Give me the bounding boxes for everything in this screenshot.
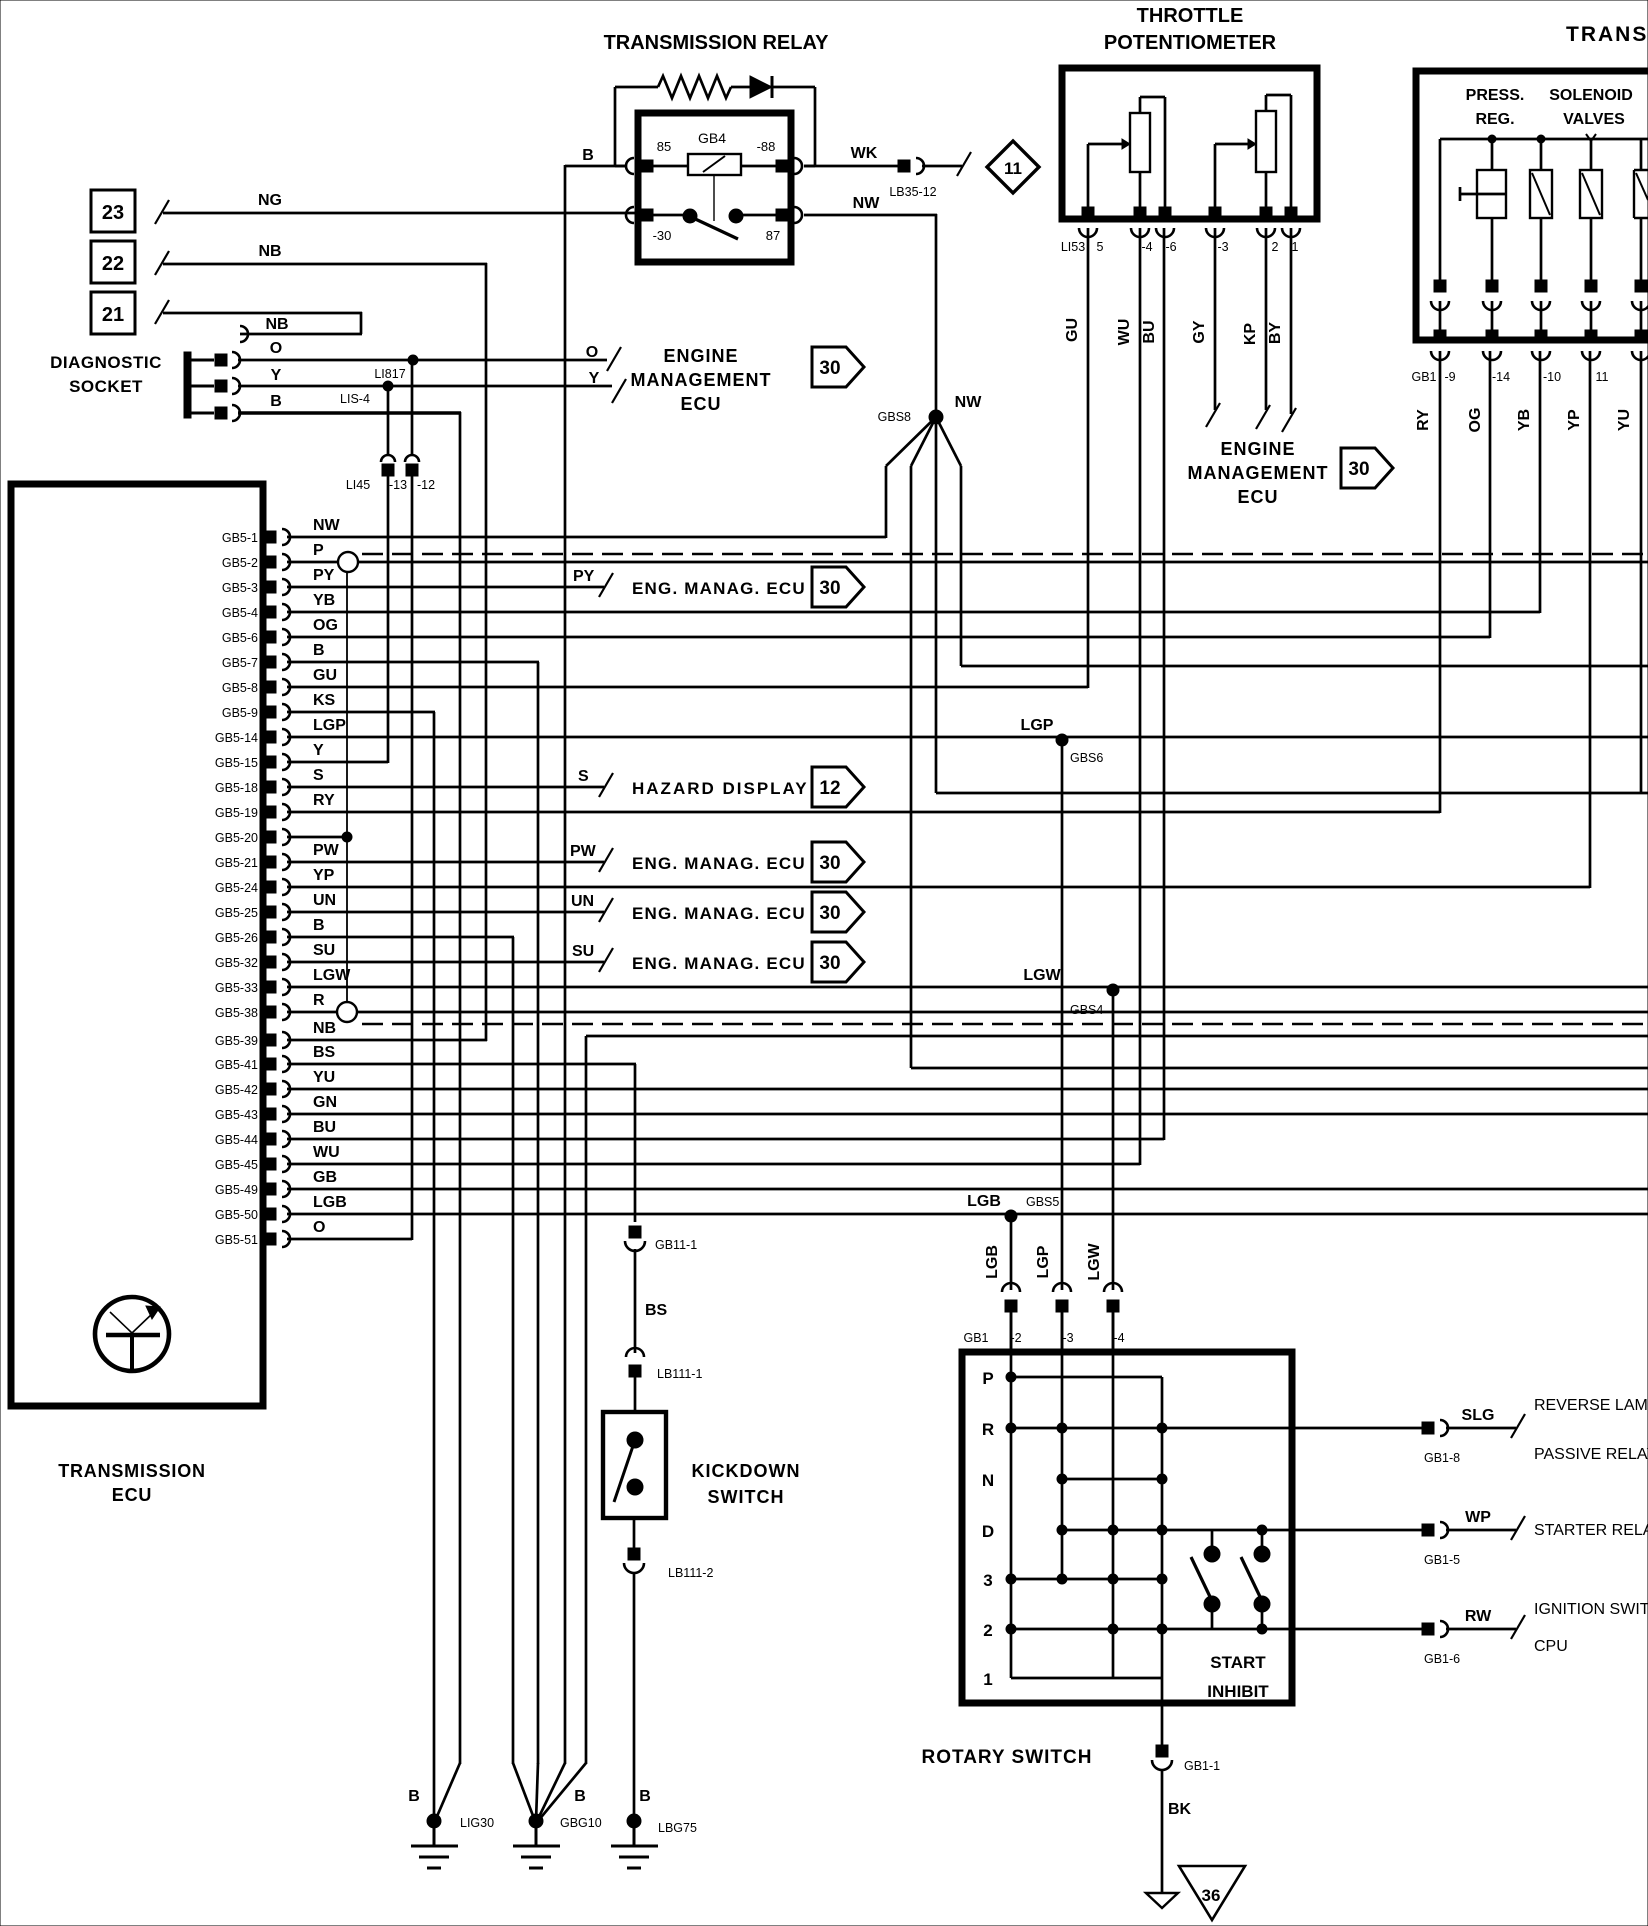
svg-text:B: B	[574, 1788, 586, 1805]
svg-text:GB1-1: GB1-1	[1184, 1759, 1220, 1773]
svg-text:-9: -9	[1444, 370, 1455, 384]
ground GBG10	[529, 1814, 543, 1828]
svg-text:MANAGEMENT: MANAGEMENT	[1188, 463, 1329, 483]
internal supply bus	[1440, 138, 1648, 141]
wire OG row to solenoid OG	[287, 636, 1490, 639]
svg-text:SOLENOID: SOLENOID	[1549, 87, 1633, 104]
svg-text:GBS4: GBS4	[1070, 1003, 1103, 1017]
transistor symbol inside ECU	[95, 1297, 169, 1371]
wire from 21 to NB connector stub	[163, 312, 362, 315]
svg-text:12: 12	[819, 778, 840, 799]
svg-text:GB5-9: GB5-9	[222, 706, 258, 720]
relay coil	[688, 154, 741, 175]
wire to ground LBG75	[633, 1572, 636, 1820]
connector GB11-1	[629, 1226, 641, 1238]
svg-text:GB5-50: GB5-50	[215, 1208, 258, 1222]
svg-text:GBS8: GBS8	[878, 410, 911, 424]
wire SU row stub	[287, 961, 604, 964]
svg-text:GB5-44: GB5-44	[215, 1133, 258, 1147]
kickdown blade	[614, 1440, 635, 1502]
svg-text:INHIBIT: INHIBIT	[1207, 1682, 1269, 1701]
svg-text:GB5-6: GB5-6	[222, 631, 258, 645]
wire RY row to solenoid RY	[287, 811, 1440, 814]
svg-text:NB: NB	[265, 316, 288, 333]
arrow 30 (engine management ecu top)	[812, 347, 864, 387]
svg-text:R: R	[982, 1420, 994, 1439]
svg-text:BS: BS	[645, 1302, 668, 1319]
svg-text:YB: YB	[313, 592, 335, 609]
svg-text:ENGINE: ENGINE	[663, 346, 738, 366]
svg-text:WU: WU	[313, 1144, 340, 1161]
svg-text:GB5-42: GB5-42	[215, 1083, 258, 1097]
row P	[1011, 1376, 1162, 1379]
diode	[750, 76, 772, 98]
svg-text:GB5-49: GB5-49	[215, 1183, 258, 1197]
svg-text:POTENTIOMETER: POTENTIOMETER	[1104, 32, 1277, 54]
wire kickdown to LB111-2	[633, 1518, 636, 1549]
pot pin	[1260, 207, 1272, 219]
wire B from socket (thick) to corner x463	[238, 411, 461, 415]
junction GBS6 on LGP	[1056, 734, 1068, 746]
solenoid box bottom pin	[1486, 330, 1498, 342]
wire GB row	[287, 1188, 1648, 1191]
svg-text:D: D	[982, 1522, 994, 1541]
wire P row with screen circle	[287, 561, 339, 564]
ground LIG30	[427, 1814, 441, 1828]
svg-text:O: O	[270, 340, 282, 357]
wire end arrow	[1146, 1893, 1178, 1908]
solenoid box bottom pin	[1434, 330, 1446, 342]
svg-text:PY: PY	[313, 567, 335, 584]
wire OG down to row OG	[1489, 351, 1492, 638]
svg-text:YP: YP	[1566, 409, 1583, 431]
svg-text:GB5-14: GB5-14	[215, 731, 258, 745]
svg-text:30: 30	[819, 903, 840, 924]
svg-text:GB5-7: GB5-7	[222, 656, 258, 670]
wire YU down to NW branch wire	[1640, 351, 1643, 793]
svg-text:LI817: LI817	[374, 367, 405, 381]
svg-text:KICKDOWN: KICKDOWN	[692, 1461, 801, 1481]
svg-text:30: 30	[1348, 459, 1369, 480]
svg-text:GBS5: GBS5	[1026, 1195, 1059, 1209]
svg-text:30: 30	[819, 358, 840, 379]
wire B row (GB5-26) to ground via x513	[287, 936, 514, 939]
svg-text:-88: -88	[757, 139, 776, 154]
svg-text:-14: -14	[1492, 370, 1510, 384]
relay coil-to-switch link (dashed)	[713, 175, 715, 221]
wire GU from pot pin 5 down to row GU	[1087, 228, 1090, 688]
svg-text:ENG. MANAG. ECU: ENG. MANAG. ECU	[632, 904, 806, 923]
wire LGB row	[287, 1213, 1648, 1216]
wire O from socket	[238, 359, 607, 362]
wire from O-junction down x413 to LI45-12 and on to row O	[411, 360, 414, 456]
junction on O wire	[408, 355, 418, 365]
svg-text:-6: -6	[1165, 240, 1176, 254]
relay GB4 box	[638, 113, 791, 262]
svg-text:PW: PW	[313, 842, 340, 859]
socket pin	[191, 385, 214, 388]
wire NB from 22, down at x486 to NB row	[163, 263, 487, 266]
svg-text:3: 3	[983, 1571, 992, 1590]
svg-text:LB111-2: LB111-2	[668, 1566, 713, 1580]
row D to WP	[1062, 1529, 1424, 1532]
wire B vertical x463 down to GBG fan	[459, 412, 462, 1764]
wire NW vertical x937 down to GBS8	[935, 214, 938, 417]
wire slash	[155, 300, 169, 324]
svg-text:22: 22	[102, 253, 124, 275]
connector box 23	[91, 190, 135, 232]
svg-text:GB1: GB1	[963, 1331, 988, 1345]
svg-text:WK: WK	[851, 145, 878, 162]
svg-text:B: B	[270, 393, 282, 410]
wire GN row	[287, 1113, 1648, 1116]
wire LGP row	[287, 736, 1648, 739]
svg-text:LGB: LGB	[967, 1193, 1001, 1210]
svg-text:1: 1	[1292, 240, 1299, 254]
svg-text:GB5-19: GB5-19	[215, 806, 258, 820]
svg-text:TRANSMISSION: TRANSMISSION	[58, 1461, 206, 1481]
svg-text:GB1-8: GB1-8	[1424, 1451, 1460, 1465]
junction GBS5 on LGB	[1005, 1210, 1017, 1222]
pot pin	[1285, 207, 1297, 219]
wire NB row to x486	[287, 1039, 487, 1042]
svg-text:TRANSMISSION RELAY: TRANSMISSION RELAY	[604, 32, 830, 54]
svg-text:GB5-15: GB5-15	[215, 756, 258, 770]
ground triangle 36	[1179, 1866, 1245, 1920]
wire YU row	[287, 1088, 1648, 1091]
wire BU from pot pin -6 down to row BU	[1163, 228, 1166, 1140]
svg-text:NB: NB	[313, 1020, 336, 1037]
wire R row with screen circle	[287, 1011, 338, 1014]
wire GB5-20 stub to screen link	[287, 836, 347, 839]
svg-text:85: 85	[657, 139, 671, 154]
wire O row to x412	[287, 1238, 412, 1241]
svg-text:ECU: ECU	[680, 394, 721, 414]
svg-text:GB5-2: GB5-2	[222, 556, 258, 570]
wire B row (GB5-7) to ground via x538	[287, 661, 539, 664]
svg-text:S: S	[313, 767, 324, 784]
svg-text:SWITCH: SWITCH	[708, 1487, 785, 1507]
svg-text:KP: KP	[1242, 323, 1259, 346]
svg-text:N: N	[982, 1471, 994, 1490]
svg-text:OG: OG	[1467, 408, 1484, 433]
svg-text:21: 21	[102, 304, 124, 326]
svg-text:LGB: LGB	[984, 1245, 1001, 1279]
svg-text:STARTER RELAY: STARTER RELAY	[1534, 1522, 1648, 1539]
inline connector inside solenoid box	[1585, 280, 1597, 292]
svg-text:GB5-41: GB5-41	[215, 1058, 258, 1072]
wire BS to kickdown	[634, 1249, 637, 1353]
svg-text:2: 2	[1272, 240, 1279, 254]
svg-text:LGW: LGW	[1086, 1242, 1103, 1280]
svg-text:GB5-38: GB5-38	[215, 1006, 258, 1020]
svg-text:UN: UN	[571, 893, 594, 910]
svg-text:GB11-1: GB11-1	[655, 1238, 697, 1252]
svg-text:WU: WU	[1116, 319, 1133, 346]
wire BK from rotary to connector GB1-1	[1161, 1678, 1164, 1745]
svg-text:BY: BY	[1267, 322, 1284, 345]
solenoid box bottom pin	[1585, 330, 1597, 342]
svg-text:30: 30	[819, 578, 840, 599]
svg-text:SU: SU	[572, 943, 594, 960]
connector LI45-13	[381, 455, 395, 462]
svg-text:GBG10: GBG10	[560, 1816, 602, 1830]
svg-text:DIAGNOSTIC: DIAGNOSTIC	[50, 353, 162, 372]
svg-text:BS: BS	[313, 1044, 336, 1061]
svg-text:ENGINE: ENGINE	[1220, 439, 1295, 459]
svg-text:B: B	[313, 917, 325, 934]
pot pin	[1159, 207, 1171, 219]
relay switch blade	[691, 217, 738, 239]
svg-text:SOCKET: SOCKET	[69, 377, 143, 396]
svg-text:ENG. MANAG. ECU: ENG. MANAG. ECU	[632, 579, 806, 598]
svg-text:LGP: LGP	[1035, 1245, 1052, 1278]
wire LGW vertical to rotary -4	[1112, 990, 1115, 1290]
connector GB1-6 RW ignition switch cpu	[1422, 1623, 1434, 1635]
svg-text:GB5-18: GB5-18	[215, 781, 258, 795]
svg-text:BU: BU	[313, 1119, 336, 1136]
svg-text:O: O	[586, 344, 598, 361]
svg-text:5: 5	[1097, 240, 1104, 254]
svg-text:-10: -10	[1543, 370, 1561, 384]
svg-text:START: START	[1210, 1653, 1266, 1672]
svg-text:Y: Y	[589, 370, 600, 387]
diamond 11	[987, 141, 1039, 193]
svg-text:LGW: LGW	[1023, 967, 1061, 984]
svg-text:11: 11	[1004, 159, 1022, 178]
junction LI817 on Y wire	[383, 381, 393, 391]
svg-text:LGP: LGP	[313, 717, 346, 734]
svg-text:NW: NW	[853, 195, 881, 212]
wire S row stub	[287, 786, 604, 789]
junction GBS8	[929, 410, 943, 424]
svg-text:GB5-25: GB5-25	[215, 906, 258, 920]
svg-text:LI45: LI45	[346, 478, 370, 492]
svg-text:RY: RY	[1415, 409, 1432, 431]
wire PW row stub	[287, 861, 604, 864]
wire NG from 23 to relay pin -30	[163, 212, 640, 215]
svg-text:Y: Y	[271, 367, 282, 384]
svg-text:GB5-43: GB5-43	[215, 1108, 258, 1122]
relay protection loop: resistor + diode	[615, 86, 658, 89]
svg-text:REVERSE LAMPS: REVERSE LAMPS	[1534, 1397, 1648, 1414]
solenoid valve 2	[1586, 134, 1596, 141]
row 1	[1011, 1677, 1162, 1680]
svg-text:TRANS: TRANS	[1566, 23, 1648, 46]
solenoid box bottom pin	[1535, 330, 1547, 342]
diagnostic socket body bar	[184, 352, 191, 418]
wire LGP vertical to rotary -3	[1061, 740, 1064, 1290]
svg-text:P: P	[313, 542, 324, 559]
row N	[1062, 1478, 1162, 1481]
svg-text:GB1: GB1	[1411, 370, 1436, 384]
svg-text:GB5-4: GB5-4	[222, 606, 258, 620]
svg-text:GN: GN	[313, 1094, 337, 1111]
svg-text:LI53: LI53	[1061, 240, 1085, 254]
wire LGB vertical to rotary -2	[1010, 1216, 1013, 1290]
svg-text:GB5-3: GB5-3	[222, 581, 258, 595]
svg-text:23: 23	[102, 202, 124, 224]
svg-text:LGB: LGB	[313, 1194, 347, 1211]
connector GB1-8 SLG reverse lamps	[1422, 1422, 1434, 1434]
svg-text:RW: RW	[1465, 1608, 1492, 1625]
svg-text:GY: GY	[1191, 320, 1208, 343]
wire B vertical x565 down to GBG fan	[564, 165, 567, 1764]
svg-text:36: 36	[1202, 1886, 1221, 1905]
pressure regulator	[1488, 135, 1496, 143]
svg-text:-3: -3	[1217, 240, 1228, 254]
solenoid valve 1	[1537, 135, 1545, 143]
svg-text:LIG30: LIG30	[460, 1816, 494, 1830]
svg-text:LGP: LGP	[1021, 717, 1054, 734]
svg-text:GBS6: GBS6	[1070, 751, 1103, 765]
row 3	[1011, 1578, 1162, 1581]
svg-text:WP: WP	[1465, 1509, 1491, 1526]
throttle potentiometer box	[1062, 68, 1317, 219]
svg-text:PASSIVE RELAY: PASSIVE RELAY	[1534, 1446, 1648, 1463]
svg-text:SU: SU	[313, 942, 335, 959]
svg-text:LIS-4: LIS-4	[340, 392, 370, 406]
svg-text:GB5-26: GB5-26	[215, 931, 258, 945]
svg-text:-13: -13	[389, 478, 407, 492]
svg-text:NB: NB	[258, 243, 281, 260]
svg-text:Y: Y	[313, 742, 324, 759]
svg-text:LBG75: LBG75	[658, 1821, 697, 1835]
svg-text:YB: YB	[1516, 409, 1533, 431]
wire Y from socket	[238, 385, 612, 388]
svg-text:GB5-45: GB5-45	[215, 1158, 258, 1172]
socket pin	[191, 359, 214, 362]
svg-text:BK: BK	[1168, 1801, 1192, 1818]
wire NW row to GBS8 fan	[287, 536, 886, 539]
svg-text:YU: YU	[313, 1069, 335, 1086]
svg-text:PY: PY	[573, 568, 595, 585]
start inhibit switch left	[1211, 1530, 1214, 1554]
svg-text:UN: UN	[313, 892, 336, 909]
wire LGW row	[287, 986, 1648, 989]
wire B to relay pin 85	[565, 165, 626, 168]
relay pin -88	[794, 158, 802, 174]
svg-text:KS: KS	[313, 692, 336, 709]
pot pin	[1134, 207, 1146, 219]
svg-text:-4: -4	[1113, 1331, 1124, 1345]
rotary switch box	[962, 1352, 1292, 1703]
svg-text:B: B	[639, 1788, 651, 1805]
relay pin -30	[626, 207, 634, 223]
svg-text:HAZARD DISPLAY: HAZARD DISPLAY	[632, 779, 809, 798]
pot pin	[1209, 207, 1221, 219]
svg-text:SLG: SLG	[1462, 1407, 1495, 1424]
svg-text:ECU: ECU	[112, 1485, 152, 1505]
svg-text:YP: YP	[313, 867, 335, 884]
wire UN row stub	[287, 911, 604, 914]
svg-text:GB4: GB4	[698, 130, 726, 146]
wire BS row to kickdown	[287, 1063, 636, 1066]
inline connector inside solenoid box	[1635, 280, 1647, 292]
connector GB1-1	[1156, 1745, 1168, 1757]
wire Y row up x388	[287, 761, 388, 764]
svg-text:YU: YU	[1616, 409, 1633, 431]
connector box 22	[91, 241, 135, 283]
svg-text:CPU: CPU	[1534, 1638, 1568, 1655]
wire diag-B diagonal into LIG30	[435, 1763, 460, 1821]
svg-text:B: B	[408, 1788, 420, 1805]
connector LB111-2	[628, 1548, 640, 1560]
svg-text:OG: OG	[313, 617, 338, 634]
wire slash	[155, 251, 169, 275]
svg-text:LB35-12: LB35-12	[889, 185, 936, 199]
ground LBG75	[627, 1814, 641, 1828]
wire (right) at y1036 to ground via x586	[586, 1035, 1648, 1038]
rotary switch connectors GB1-2 -3 -4	[1002, 1283, 1020, 1292]
svg-text:11: 11	[1596, 370, 1609, 384]
svg-text:GB1-5: GB1-5	[1424, 1553, 1460, 1567]
transmission ECU box	[11, 484, 263, 1406]
wire WU row to pot WU	[287, 1163, 1140, 1166]
svg-text:ENG. MANAG. ECU: ENG. MANAG. ECU	[632, 954, 806, 973]
wire YB row to solenoid YB	[287, 611, 1540, 614]
svg-text:GB: GB	[313, 1169, 337, 1186]
GBG10 fan diagonals	[513, 1763, 535, 1821]
svg-text:GB5-1: GB5-1	[222, 531, 258, 545]
svg-text:GB1-6: GB1-6	[1424, 1652, 1460, 1666]
wire slash	[155, 200, 169, 224]
screen circle P	[338, 552, 358, 572]
kickdown switch box	[603, 1412, 666, 1518]
svg-text:30: 30	[819, 953, 840, 974]
svg-text:-3: -3	[1062, 1331, 1073, 1345]
svg-text:1: 1	[983, 1670, 992, 1689]
svg-text:ECU: ECU	[1237, 487, 1278, 507]
svg-text:P: P	[982, 1369, 993, 1388]
inline connector inside solenoid box	[1434, 280, 1446, 292]
relay pin 87	[794, 207, 802, 223]
wire NW from relay 87	[804, 214, 937, 217]
svg-text:NW: NW	[955, 394, 983, 411]
screen link vertical x347	[346, 572, 348, 1002]
solenoid valve 3 (clipped)	[1640, 139, 1643, 170]
svg-text:RY: RY	[313, 792, 335, 809]
svg-text:VALVES: VALVES	[1563, 111, 1625, 128]
loop verticals	[614, 87, 617, 166]
relay switch contacts	[683, 209, 697, 223]
svg-text:-30: -30	[653, 228, 672, 243]
connector LB111-1	[626, 1348, 644, 1357]
svg-text:IGNITION SWITCH: IGNITION SWITCH	[1534, 1601, 1648, 1618]
wire from LI817 junction down x388 to LI45-13 and on to row Y	[387, 386, 390, 456]
transmission solenoid valves box (clipped right)	[1416, 71, 1648, 340]
wire WU from pot pin -4 down to row WU	[1139, 228, 1142, 1165]
svg-text:O: O	[313, 1219, 325, 1236]
svg-text:MANAGEMENT: MANAGEMENT	[631, 370, 772, 390]
relay pin 85	[626, 158, 634, 174]
svg-text:LB111-1: LB111-1	[657, 1367, 702, 1381]
svg-text:GU: GU	[1064, 318, 1081, 342]
svg-text:2: 2	[983, 1621, 992, 1640]
svg-text:LGW: LGW	[313, 967, 351, 984]
inline connector inside solenoid box	[1486, 280, 1498, 292]
svg-text:GU: GU	[313, 667, 337, 684]
svg-text:PW: PW	[570, 843, 597, 860]
wire YP row to solenoid YP	[287, 886, 1590, 889]
svg-text:GB5-51: GB5-51	[215, 1233, 258, 1247]
screen circle R	[337, 1002, 357, 1022]
svg-text:B: B	[582, 147, 594, 164]
svg-text:PRESS.: PRESS.	[1466, 87, 1525, 104]
arrow 30 (pot engine ecu)	[1341, 448, 1393, 488]
svg-text:BU: BU	[1141, 320, 1158, 343]
row 2 to RW	[1011, 1628, 1424, 1631]
